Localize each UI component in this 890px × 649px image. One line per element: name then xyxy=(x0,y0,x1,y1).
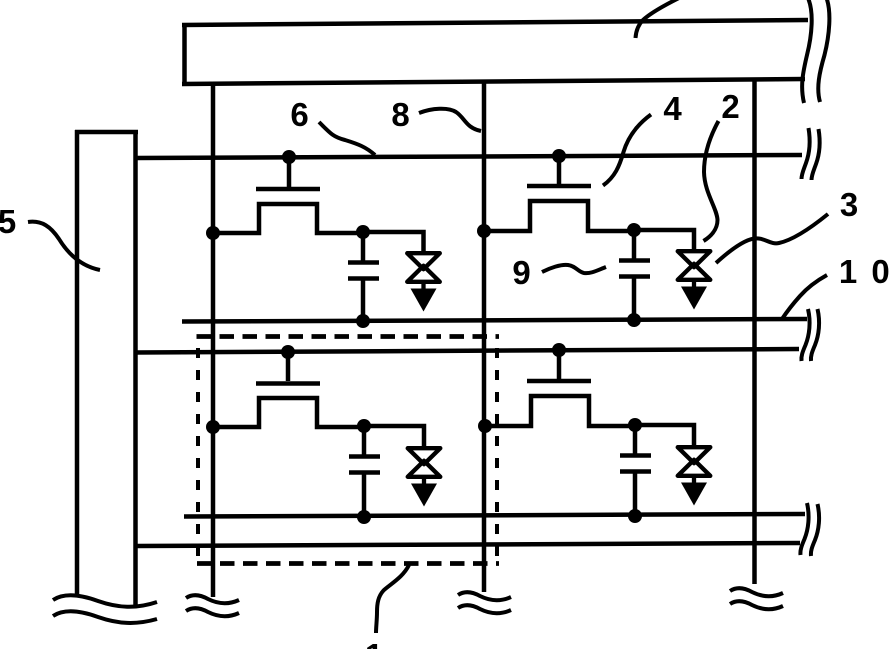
capacitor C3 xyxy=(349,426,380,517)
svg-text:2: 2 xyxy=(721,88,739,125)
vertical driver block left (data driver) xyxy=(75,130,138,605)
node dot gate row1 col1 xyxy=(282,150,296,164)
node dot drain Q3 / capacitor C3 top xyxy=(357,419,371,433)
svg-text:8: 8 xyxy=(391,96,409,133)
svg-text:9: 9 xyxy=(512,254,530,291)
node dot capacitor C4 bottom xyxy=(628,509,642,523)
transistor Q2 gate xyxy=(527,156,591,186)
transistor Q4 channel xyxy=(485,396,635,426)
transistor Q3 gate xyxy=(256,352,320,384)
svg-text:1: 1 xyxy=(365,637,383,649)
break mark top bar right xyxy=(802,0,829,103)
leader 3 xyxy=(716,214,828,263)
node dot capacitor C1 bottom xyxy=(356,314,370,328)
node dot gate row2 col2 xyxy=(552,343,566,357)
node dot source Q2 on column xyxy=(477,224,491,238)
leader 10 xyxy=(782,275,827,319)
transistor Q2 channel xyxy=(484,201,634,231)
break mark right bottom lines xyxy=(800,503,819,556)
capacitor C4 xyxy=(620,425,651,516)
wire row 2 bottom supply line xyxy=(184,514,805,517)
break mark left block bottom xyxy=(53,595,157,623)
svg-text:0: 0 xyxy=(871,253,889,290)
break mark column 2 bottom xyxy=(458,592,511,613)
node dot drain Q2 / capacitor C2 top xyxy=(627,223,641,237)
wire drain Q2 to diode D2 xyxy=(634,230,694,253)
svg-text:1: 1 xyxy=(839,253,857,290)
wire gate line row 3 xyxy=(136,543,800,546)
svg-text:5: 5 xyxy=(0,203,16,240)
wire drain Q4 to diode D4 xyxy=(635,425,694,449)
node dot source Q1 on column xyxy=(206,226,220,240)
node dot capacitor C2 bottom xyxy=(627,313,641,327)
leader 9 xyxy=(542,265,606,273)
data line column 3 xyxy=(752,79,757,584)
transistor Q1 channel xyxy=(213,204,363,233)
data line column 2 xyxy=(482,82,487,592)
driver block top (horizontal scan driver) xyxy=(182,20,808,86)
leader 5 xyxy=(28,222,100,270)
node dot gate row1 col2 xyxy=(552,149,566,163)
break mark column 1 bottom xyxy=(186,595,239,616)
node dot drain Q1 / capacitor C1 top xyxy=(356,225,370,239)
transistor Q3 channel xyxy=(213,398,364,427)
node dot source Q3 on column xyxy=(206,420,220,434)
leader 7 xyxy=(636,0,680,38)
leader 4 xyxy=(603,115,651,186)
data line column 1 xyxy=(211,82,216,597)
diode D1 (EL element) xyxy=(407,253,440,311)
break mark right rows 1-2 xyxy=(801,309,819,361)
capacitor C2 xyxy=(619,230,650,320)
diode D2 (EL element) xyxy=(678,251,711,309)
wire row 1 bottom supply line xyxy=(182,319,807,322)
wire gate line row 2 xyxy=(136,349,799,353)
transistor Q1 gate xyxy=(256,157,320,189)
leader 2 xyxy=(704,121,719,241)
break mark column 3 bottom xyxy=(730,588,783,609)
transistor Q4 gate xyxy=(527,350,591,381)
node dot drain Q4 / capacitor C4 top xyxy=(628,418,642,432)
capacitor C1 xyxy=(348,232,379,321)
dashed pixel boundary box 1 xyxy=(197,337,500,564)
node dot gate row2 col1 xyxy=(281,345,295,359)
wire drain Q1 to diode D1 xyxy=(363,232,424,255)
svg-text:3: 3 xyxy=(840,186,858,223)
leader 1 xyxy=(376,565,409,633)
diode D4 (EL element) xyxy=(678,447,711,505)
leader 8 xyxy=(419,109,481,131)
svg-text:6: 6 xyxy=(290,96,308,133)
node dot capacitor C3 bottom xyxy=(357,510,371,524)
wire gate line row 1 xyxy=(136,155,802,158)
leader 6 xyxy=(319,122,375,155)
node dot source Q4 on column xyxy=(478,419,492,433)
diode D3 (EL element) xyxy=(408,448,441,506)
svg-text:4: 4 xyxy=(663,90,682,127)
wire drain Q3 to diode D3 xyxy=(364,426,424,450)
break mark gate line row1 right xyxy=(802,128,820,180)
